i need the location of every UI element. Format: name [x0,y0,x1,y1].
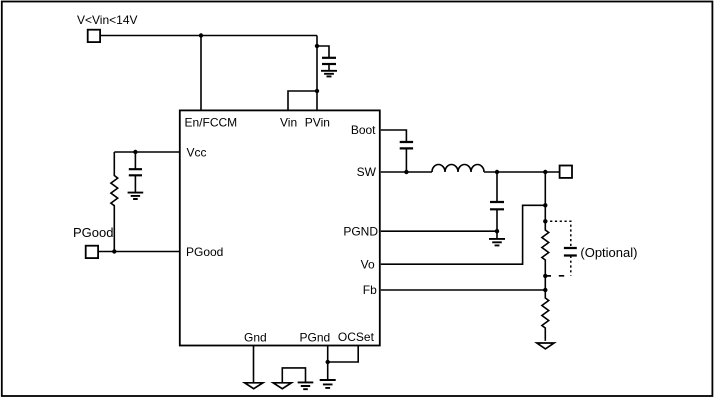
svg-text:Fb: Fb [363,283,377,297]
svg-text:PGood: PGood [186,245,223,259]
svg-text:Vin: Vin [280,115,297,129]
svg-text:PGnd: PGnd [300,331,331,345]
svg-text:Vo: Vo [361,257,375,271]
svg-text:En/FCCM: En/FCCM [185,115,238,129]
svg-text:V<Vin<14V: V<Vin<14V [77,13,138,27]
svg-text:PGood: PGood [73,225,113,240]
svg-text:SW: SW [357,165,377,179]
svg-text:Vcc: Vcc [187,145,207,159]
svg-text:OCSet: OCSet [338,330,375,344]
svg-text:PGND: PGND [343,224,378,238]
svg-text:PVin: PVin [305,115,330,129]
svg-text:Gnd: Gnd [244,330,267,344]
svg-text:Boot: Boot [351,123,376,137]
svg-text:(Optional): (Optional) [580,245,637,260]
